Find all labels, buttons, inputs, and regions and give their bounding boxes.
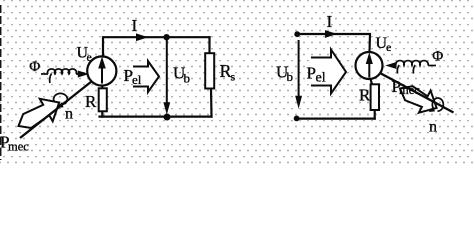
wire: armature to R (right) (371, 79, 373, 84)
shaft line (left) (20, 82, 92, 139)
terminal node bottom (right) (294, 116, 300, 122)
wire: right branch with Rs (208, 37, 210, 53)
wire: R to bottom rail (101, 111, 103, 117)
wire: top rail left diagram (103, 37, 210, 56)
arrow inside circle (up) (99, 58, 105, 83)
machine circle U_e (right) (356, 52, 383, 79)
svg-text:I: I (327, 12, 333, 31)
voltage arrow Ub (left) (164, 40, 170, 113)
rotation arrow n (left) (54, 93, 68, 104)
svg-text:I: I (132, 16, 138, 35)
junction node top (left) (163, 34, 169, 40)
power flow arrow Pel (right) (311, 50, 346, 94)
wire below Rs (210, 89, 213, 117)
power flow arrow Pel (left) (133, 61, 159, 92)
svg-text:Φ: Φ (29, 59, 40, 75)
svg-text:mec: mec (399, 83, 420, 97)
scan edge artifact (0, 5, 2, 160)
wire: top rail right diagram (297, 34, 370, 52)
machine circle U_e (87, 56, 116, 85)
resistor Rs (205, 53, 214, 88)
svg-text:e: e (87, 50, 92, 64)
svg-text:R: R (85, 92, 97, 111)
resistor R (left) (99, 88, 107, 111)
svg-text:mec: mec (8, 140, 29, 154)
resistor R (right) (371, 84, 379, 110)
mechanical power arrow Pmec (left, outline) (12, 91, 66, 137)
field coil / flux line (left) (41, 69, 80, 83)
current arrowhead on top rail (left) (137, 34, 147, 40)
rotation arrow n (right) (432, 98, 443, 111)
svg-text:b: b (184, 71, 191, 86)
svg-text:el: el (316, 70, 326, 85)
svg-text:s: s (231, 70, 236, 84)
arrow inside circle (up, right) (366, 54, 372, 78)
junction node bottom (left) (164, 114, 171, 121)
background halftone dots (0, 0, 474, 165)
flux arrowhead toward machine (right, pointing left) (387, 63, 396, 69)
svg-text:e: e (386, 40, 391, 54)
wire: bottom rail left diagram (100, 115, 212, 117)
wire: armature to R (101, 86, 103, 89)
svg-text:n: n (65, 106, 73, 123)
flux arrowhead toward machine (78, 71, 87, 77)
svg-text:n: n (429, 119, 437, 136)
wire: R to bottom rail (right) (374, 110, 376, 119)
mechanical power arrow Pmec (right, outline) (394, 77, 442, 119)
shaft line (right) (380, 73, 454, 113)
voltage arrow Ub (right) (296, 40, 302, 107)
svg-text:el: el (132, 72, 142, 87)
wire: bottom rail right diagram (297, 117, 375, 119)
terminal node top (right) (294, 31, 300, 37)
current arrowhead on top rail (right) (326, 31, 336, 37)
svg-text:b: b (287, 69, 294, 84)
svg-text:Φ: Φ (432, 49, 443, 65)
field coil / flux line (right) (396, 61, 436, 74)
svg-text:R: R (359, 86, 371, 105)
